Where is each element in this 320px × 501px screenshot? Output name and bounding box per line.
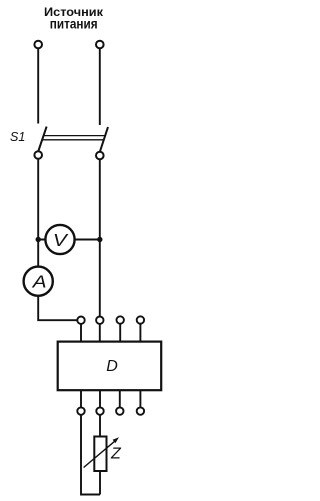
wire: bottom stub 4 bbox=[139, 390, 141, 407]
wire: X2 down to switch right pole bbox=[99, 49, 101, 125]
wire: terminal 1 stub into D bbox=[80, 324, 82, 342]
terminal 3 (top of D) bbox=[117, 316, 124, 323]
bottom terminal 3 bbox=[116, 407, 123, 414]
bottom terminal 4 bbox=[137, 407, 144, 414]
wire: bottom terminal 2 down to Z top bbox=[99, 415, 101, 437]
terminal 2 (top of D) bbox=[96, 317, 103, 324]
svg-text:V: V bbox=[53, 230, 69, 250]
voltmeter V bbox=[45, 225, 74, 254]
bottom terminal 1 bbox=[77, 407, 84, 414]
wire: terminal 2 stub into D bbox=[99, 324, 101, 342]
svg-text:D: D bbox=[106, 358, 118, 375]
switch S1 right contact circle bbox=[96, 152, 104, 160]
switch S1 right pole blade bbox=[100, 127, 108, 152]
wire: bottom terminal 1 loop down, right to Z bottom bbox=[81, 415, 100, 495]
svg-text:A: A bbox=[32, 272, 47, 292]
switch S1 left contact circle bbox=[34, 151, 42, 159]
impedance Z (variable) bbox=[84, 437, 122, 472]
terminal 4 (top of D) bbox=[137, 316, 144, 323]
terminal X2 (right power terminal) bbox=[96, 41, 104, 49]
node: junction dot left bbox=[36, 237, 41, 242]
wire: ammeter down and right to terminal 1 of D bbox=[38, 296, 77, 320]
switch S1 left pole blade bbox=[38, 127, 46, 152]
bottom terminal 2 bbox=[96, 407, 103, 414]
wire: terminal 3 stub into D bbox=[119, 324, 121, 342]
svg-text:S1: S1 bbox=[10, 130, 25, 144]
svg-text:Z: Z bbox=[110, 446, 122, 463]
wire: Z bottom stem bbox=[99, 471, 101, 495]
device D box bbox=[58, 342, 162, 391]
wire: terminal 4 stub into D bbox=[139, 324, 141, 342]
terminal 1 (top of D) bbox=[77, 317, 84, 324]
wire: left branch, switch to ammeter bbox=[37, 159, 39, 270]
wire: bottom stub 1 bbox=[80, 390, 82, 407]
node: junction dot right bbox=[97, 237, 102, 242]
svg-text:питания: питания bbox=[50, 17, 98, 32]
label: power source title "Источник питания" bbox=[44, 7, 103, 32]
terminal X1 (left power terminal) bbox=[34, 41, 42, 49]
ammeter A bbox=[24, 267, 53, 296]
wire: X1 down to switch left pole bbox=[37, 49, 39, 124]
wire: bottom stub 3 bbox=[119, 390, 121, 407]
switch S1 mechanical coupling bar (double line) bbox=[42, 136, 105, 140]
wire: voltmeter horizontal lead across branches bbox=[38, 239, 100, 241]
wire: bottom stub 2 bbox=[99, 390, 101, 407]
wire: right branch, switch to terminal 2 of D bbox=[99, 159, 101, 316]
